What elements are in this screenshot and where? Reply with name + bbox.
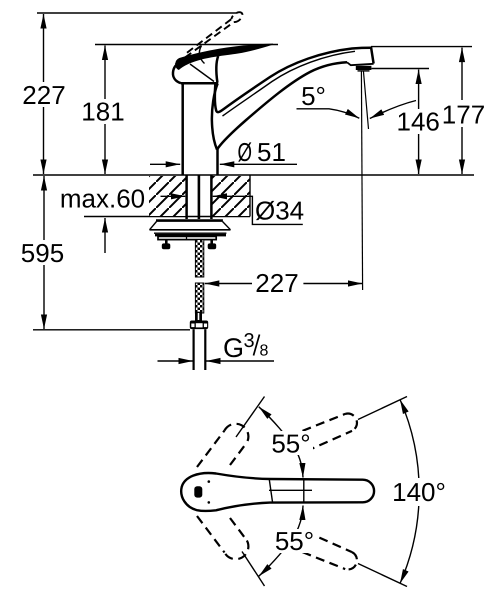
svg-text:595: 595: [21, 238, 64, 268]
svg-text:3: 3: [244, 330, 255, 352]
svg-text:8: 8: [260, 343, 269, 360]
svg-text:140°: 140°: [392, 477, 446, 507]
svg-text:177: 177: [442, 100, 485, 130]
svg-text:227: 227: [22, 80, 65, 110]
svg-text:G: G: [223, 333, 244, 363]
svg-text:51: 51: [257, 137, 286, 167]
svg-text:227: 227: [255, 268, 298, 298]
svg-text:Ø34: Ø34: [255, 196, 304, 226]
svg-text:55°: 55°: [275, 526, 314, 556]
svg-text:55°: 55°: [271, 429, 310, 459]
svg-text:5°: 5°: [301, 81, 326, 111]
svg-text:146: 146: [397, 106, 440, 136]
svg-text:181: 181: [81, 97, 124, 127]
svg-text:max.60: max.60: [60, 184, 145, 214]
svg-text:Ø: Ø: [238, 137, 253, 167]
